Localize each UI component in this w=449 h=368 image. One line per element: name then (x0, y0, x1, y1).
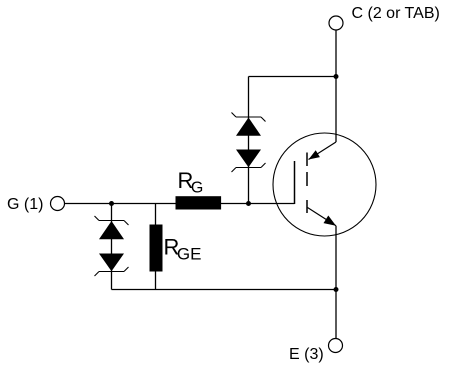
IGBT Q1 channel dash 1 (306, 153, 308, 167)
resistor RGE body (150, 225, 163, 272)
wire bottom horizontal (112, 289, 337, 291)
wire emitter vertical (335, 226, 337, 339)
resistor RG body (176, 196, 222, 209)
svg-text:E (3): E (3) (289, 346, 324, 363)
svg-text:G (1): G (1) (7, 196, 43, 213)
wire collector vertical (335, 30, 337, 142)
IGBT Q1 channel dash 3 (306, 200, 308, 213)
svg-text:C (2 or TAB): C (2 or TAB) (352, 5, 440, 22)
node junction bottom (emitter) (334, 287, 339, 292)
IGBT Q1 channel dash 2 (306, 172, 308, 186)
IGBT Q1 emitter arrowhead (324, 216, 337, 226)
wire top horizontal (249, 76, 337, 78)
zener diode D2 (lower of collector-gate pair, cathode down) (232, 150, 266, 173)
zener diode D1 (upper of collector-gate pair, cathode up) (232, 113, 266, 136)
IGBT Q1 collector arrowhead (309, 150, 320, 159)
node junction gate-left (zener branch) (109, 201, 114, 206)
zener diode D4 (lower of gate-emitter pair, cathode down) (95, 254, 129, 277)
IGBT Q1 gate bar (294, 161, 296, 204)
wire zener branch vertical (248, 77, 250, 204)
zener diode D3 (upper of gate-emitter pair, cathode up) (95, 216, 129, 239)
wire gate-emitter zener vertical (111, 204, 113, 290)
terminal E (329, 339, 343, 353)
IGBT Q1 emitter diagonal (308, 208, 337, 226)
IGBT Q1 collector diagonal (309, 142, 337, 160)
node junction top (collector/zener branch) (334, 74, 339, 79)
IGBT Q1 circle (273, 133, 376, 236)
resistor RGE vertical wire (155, 204, 157, 290)
node junction gate-mid (collector zener branch) (246, 201, 251, 206)
terminal G (51, 197, 65, 211)
terminal C (329, 16, 343, 30)
wire gate horizontal (65, 203, 295, 205)
